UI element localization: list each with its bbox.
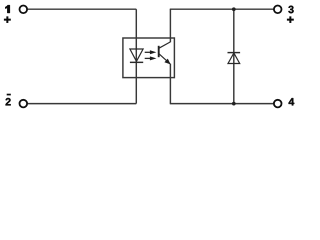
node junction bottom at diode branch — [232, 102, 236, 106]
label terminal 3 — [288, 6, 293, 14]
wire bottom-right: emitter node to terminal 4 — [170, 103, 274, 105]
light emission arrow 2 — [145, 56, 157, 60]
LED of optocoupler (anode top, cathode bottom) — [130, 49, 143, 62]
terminal 2 circle — [20, 100, 28, 108]
node junction top at diode branch — [232, 7, 236, 11]
wire diode branch vertical — [233, 9, 235, 103]
phototransistor emitter arrowhead — [164, 59, 170, 65]
terminal 3 circle — [274, 6, 282, 14]
label terminal 4 — [289, 98, 295, 105]
optocoupler box U1 — [123, 38, 174, 78]
label polarity + of terminal 1 — [4, 16, 11, 23]
light emission arrow 1 — [145, 50, 157, 54]
phototransistor collector — [159, 42, 170, 48]
diode D1 across output (cathode up) — [228, 53, 241, 64]
phototransistor emitter — [159, 54, 170, 64]
wire collector vertical — [169, 9, 171, 42]
wire LED branch vertical — [135, 9, 137, 103]
terminal 1 circle — [20, 6, 28, 14]
label polarity + of terminal 3 — [287, 16, 294, 23]
label terminal 1 — [5, 5, 10, 13]
wire emitter vertical — [169, 64, 171, 104]
label terminal 2 — [6, 98, 11, 105]
terminal 4 circle — [274, 100, 282, 108]
wire bottom-left: terminal 2 to LED branch — [27, 103, 136, 105]
label polarity - of terminal 2 — [7, 94, 11, 96]
wire top-left: terminal 1 to LED branch — [27, 8, 136, 10]
wire top-right: collector node to terminal 3 — [170, 8, 274, 10]
phototransistor Q1 base bar — [158, 46, 160, 57]
